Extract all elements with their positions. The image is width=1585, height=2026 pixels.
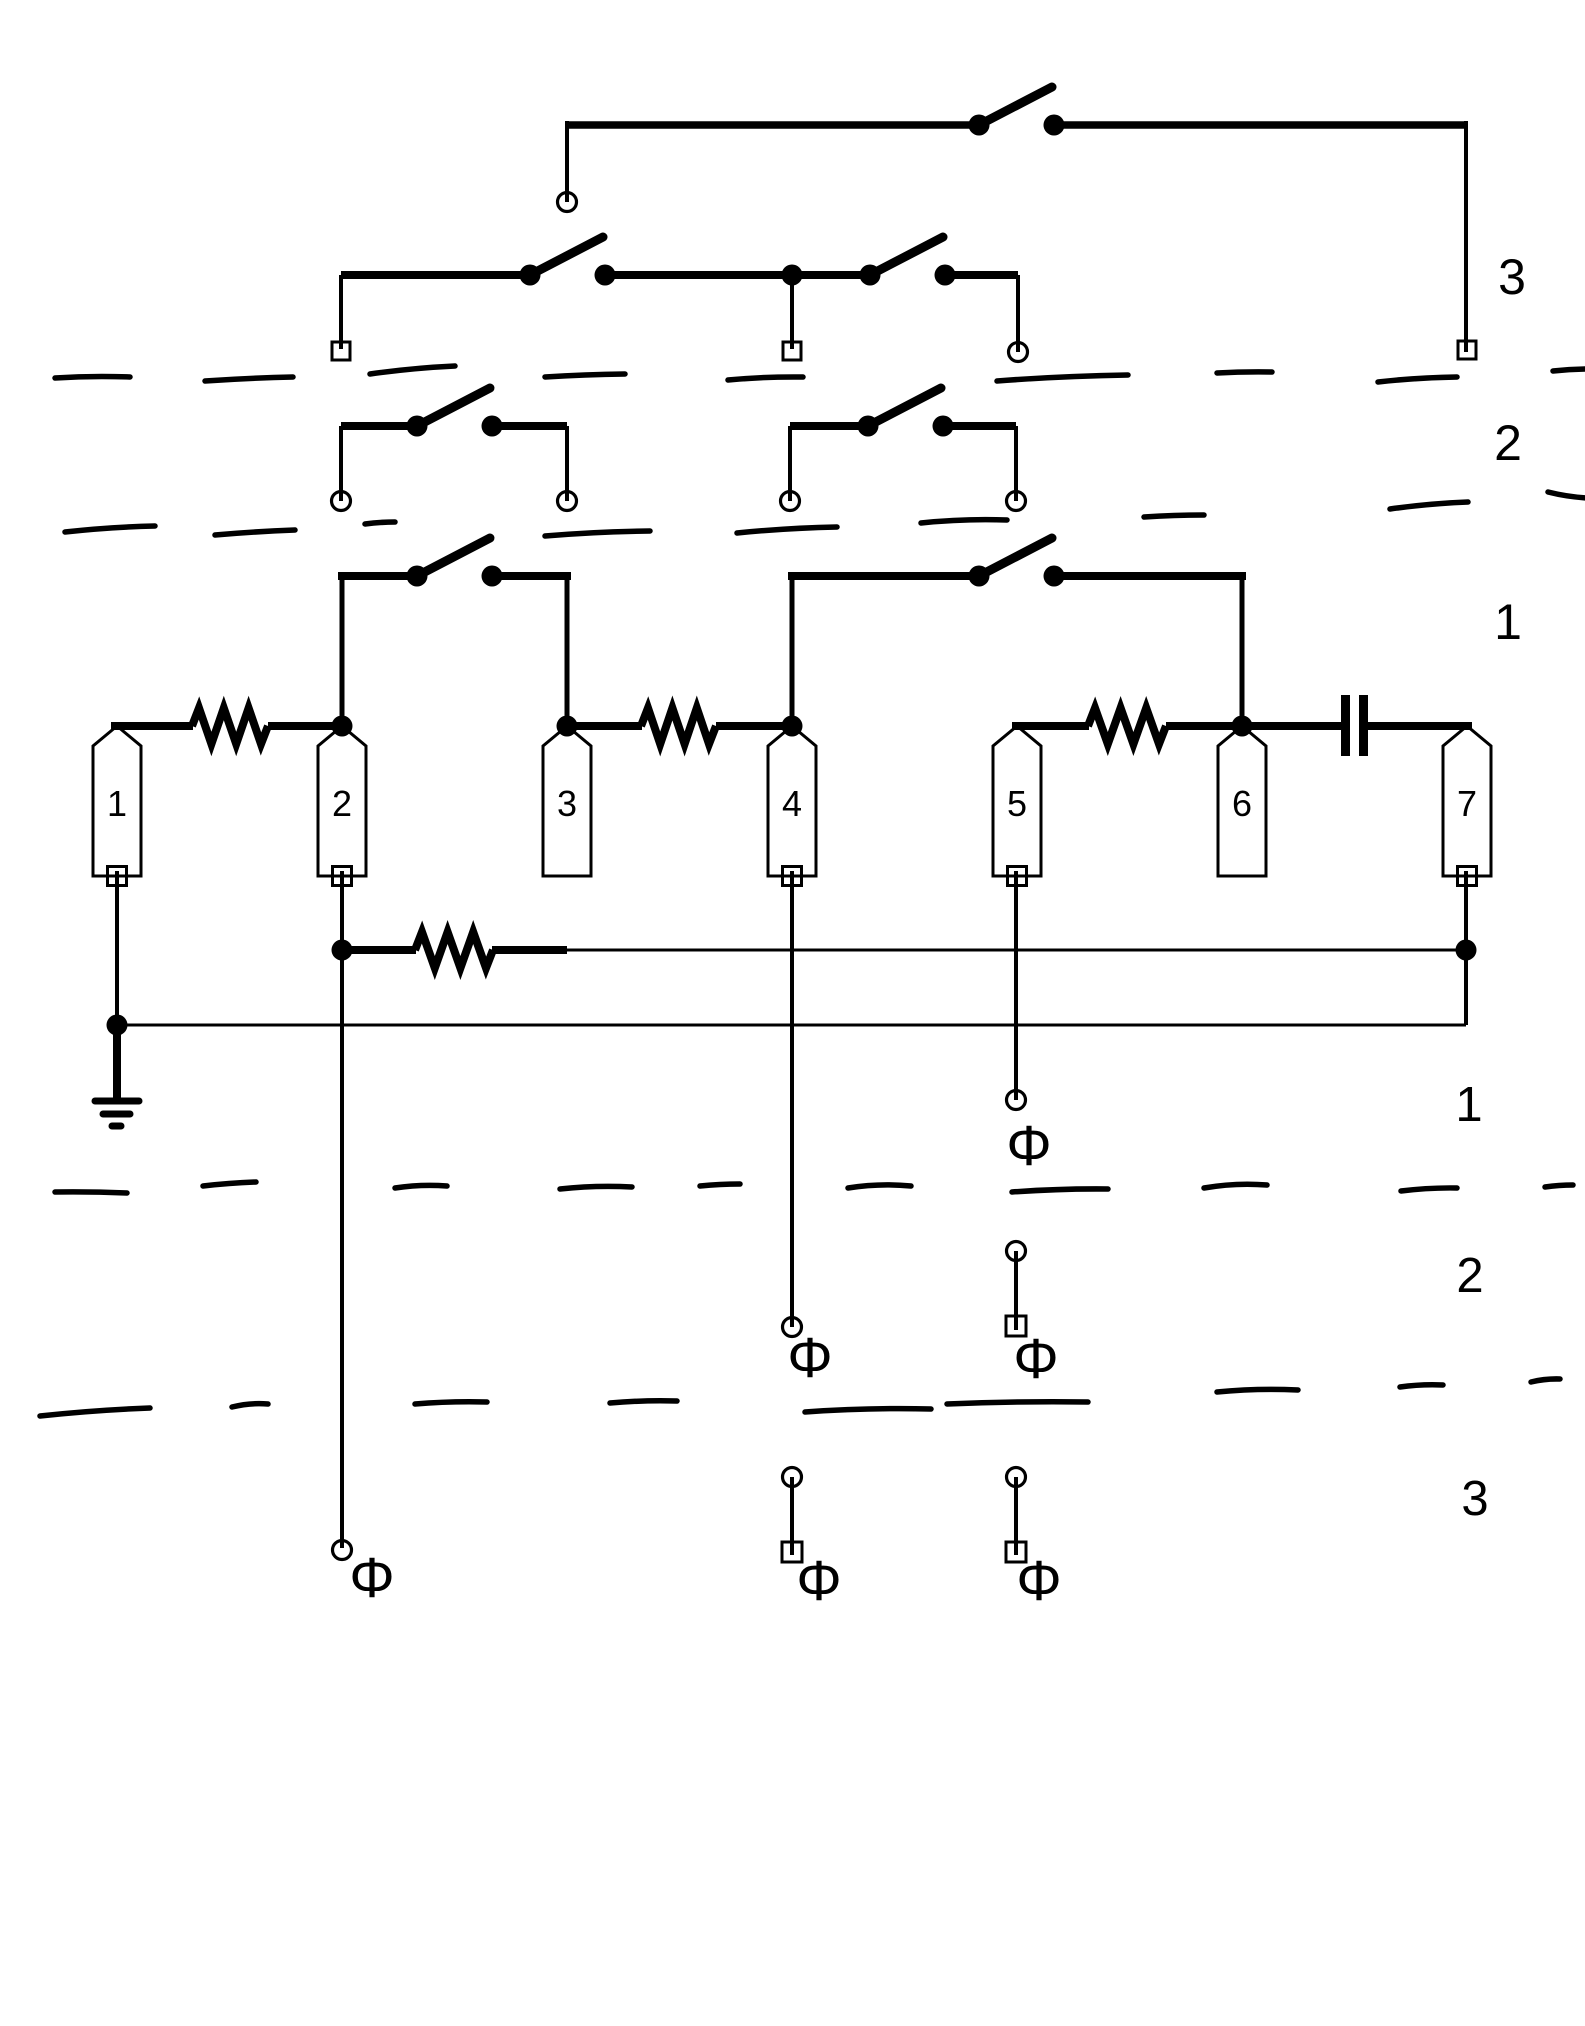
resistor R2 (between probes 3-4) bbox=[641, 708, 716, 744]
svg-text:2: 2 bbox=[1494, 415, 1522, 471]
terminal circle below probe5 bbox=[1007, 1091, 1026, 1110]
wire: row2 left switch right segment bbox=[492, 422, 567, 430]
svg-text:1: 1 bbox=[1494, 594, 1522, 650]
switch S1 pole dot bbox=[407, 566, 428, 587]
terminal circle bottom-right pair bbox=[1007, 1468, 1026, 1487]
wire: row3 bus right segment bbox=[945, 271, 1018, 279]
svg-text:1: 1 bbox=[1455, 1078, 1482, 1132]
wire: row3 right drop bbox=[1016, 275, 1020, 352]
terminal circle row2 d bbox=[1007, 492, 1026, 511]
wire: drop from top bus right end bbox=[1464, 121, 1468, 352]
probe electrode 3 body bbox=[543, 726, 591, 876]
probe electrode 7 label bbox=[1457, 783, 1477, 824]
layer label 1 (right upper) bbox=[1494, 594, 1522, 650]
terminal circle row2 c bbox=[781, 492, 800, 511]
terminal circle below probe4 bbox=[783, 1318, 802, 1337]
junction dot at probe2 top bbox=[332, 716, 353, 737]
switch S4 blade bbox=[868, 388, 941, 426]
svg-text:3: 3 bbox=[1461, 1472, 1488, 1526]
wire: probe4 bottom drop bbox=[790, 871, 794, 1327]
wire: top bus right segment bbox=[1054, 121, 1466, 129]
probe electrode 1 label bbox=[107, 783, 127, 824]
switch S7 throw dot bbox=[1044, 115, 1065, 136]
switch S7 blade bbox=[979, 87, 1052, 125]
wire: probe1 to R1 bbox=[111, 722, 193, 730]
switch S6 throw dot bbox=[935, 265, 956, 286]
ground symbol bbox=[95, 1101, 139, 1126]
layer boundary sketch line B bbox=[65, 492, 1585, 536]
wire: ground bus horizontal bbox=[117, 1024, 1466, 1027]
probe electrode 7 bottom contact square bbox=[1458, 867, 1477, 886]
switch S2 pole dot bbox=[969, 566, 990, 587]
switch S5 pole dot bbox=[520, 265, 541, 286]
layer label 2 (right upper) bbox=[1494, 415, 1522, 471]
wire: mid pair link bbox=[1014, 1251, 1018, 1330]
svg-text:7: 7 bbox=[1457, 783, 1477, 824]
svg-text:2: 2 bbox=[332, 783, 352, 824]
terminal circle row2 b bbox=[558, 492, 577, 511]
wire: row1 drop to probe 3 bbox=[565, 576, 570, 726]
probe electrode 4 label bbox=[782, 783, 802, 824]
terminal circle mid pair bbox=[1007, 1242, 1026, 1261]
terminal square row3 left bbox=[332, 342, 350, 360]
switch S5 blade bbox=[530, 237, 603, 275]
phi label below probe5 bbox=[1006, 1114, 1051, 1178]
probe electrode 6 body bbox=[1218, 726, 1266, 876]
wire: row3 bus left segment bbox=[341, 271, 530, 279]
layer label 3 (right upper) bbox=[1498, 249, 1526, 305]
wire: probe7 bottom drop bbox=[1464, 871, 1468, 1025]
wire: row3 left drop bbox=[339, 275, 343, 349]
svg-text:Φ: Φ bbox=[787, 1326, 832, 1390]
resistor R1 (between probes 1-2) bbox=[192, 708, 268, 744]
layer label 2 (right lower) bbox=[1456, 1249, 1483, 1303]
layer label 3 (right lower) bbox=[1461, 1472, 1488, 1526]
wire: row3 bus middle segment bbox=[605, 271, 870, 279]
probe electrode 4 bottom contact square bbox=[783, 867, 802, 886]
switch S3 throw dot bbox=[482, 416, 503, 437]
svg-text:Φ: Φ bbox=[796, 1549, 841, 1613]
layer boundary sketch line C bbox=[55, 1182, 1573, 1193]
switch S3 blade bbox=[417, 388, 490, 426]
wire: row1 left switch right segment bbox=[492, 572, 571, 580]
capacitor C1 (between probes 6-7) bbox=[1346, 695, 1364, 756]
switch S2 blade bbox=[979, 538, 1052, 576]
wire: probe2 bottom drop bbox=[340, 871, 344, 1548]
wire: probe1 bottom drop bbox=[115, 871, 119, 1025]
terminal square row3 center bbox=[783, 342, 801, 360]
wire: row1 right switch right segment bbox=[1054, 572, 1246, 580]
resistor R3 (between probes 5-6) bbox=[1088, 708, 1166, 744]
phi label mid pair bbox=[1013, 1327, 1058, 1391]
junction dot below probe7 bbox=[1456, 940, 1477, 961]
probe electrode 7 body bbox=[1443, 726, 1491, 876]
probe electrode 2 body bbox=[318, 726, 366, 876]
junction dot at probe6 top bbox=[1232, 716, 1253, 737]
probe electrode 3 label bbox=[557, 783, 577, 824]
wire: row2 right switch right segment bbox=[943, 422, 1016, 430]
svg-text:Φ: Φ bbox=[1006, 1114, 1051, 1178]
probe electrode 4 body bbox=[768, 726, 816, 876]
terminal circle below top bus left end bbox=[558, 193, 577, 212]
terminal circle end of probe2 line bbox=[333, 1541, 352, 1560]
probe electrode 2 bottom contact square bbox=[333, 867, 352, 886]
wire: C1 to probe7 bbox=[1368, 722, 1472, 730]
phi label below probe2 line bbox=[349, 1546, 394, 1610]
terminal square bottom-left pair bbox=[782, 1542, 802, 1562]
svg-text:4: 4 bbox=[782, 783, 802, 824]
switch S7 pole dot bbox=[969, 115, 990, 136]
svg-text:5: 5 bbox=[1007, 783, 1027, 824]
svg-text:2: 2 bbox=[1456, 1249, 1483, 1303]
wire: ground stub bbox=[113, 1025, 121, 1098]
phi label below probe4 bbox=[787, 1326, 832, 1390]
probe electrode 5 label bbox=[1007, 783, 1027, 824]
wire: row2 drop c bbox=[788, 426, 792, 501]
wire: row1 drop to probe 6 bbox=[1240, 576, 1245, 726]
switch S6 pole dot bbox=[860, 265, 881, 286]
wire: drop from top bus left end bbox=[565, 121, 569, 202]
switch S5 throw dot bbox=[595, 265, 616, 286]
wire: bottom-right pair link bbox=[1014, 1477, 1018, 1555]
switch S4 pole dot bbox=[858, 416, 879, 437]
wire: row2 left switch left segment bbox=[341, 422, 417, 430]
wire: row3 center drop bbox=[790, 275, 794, 349]
wire: bottom-left pair link bbox=[790, 1477, 794, 1555]
wire: R3 to probe6 bbox=[1166, 722, 1242, 730]
phi label bottom-left pair bbox=[796, 1549, 841, 1613]
svg-text:3: 3 bbox=[1498, 249, 1526, 305]
layer boundary sketch line A bbox=[55, 366, 1585, 382]
junction dot at probe3 top bbox=[557, 716, 578, 737]
wire: probe5 bottom drop bbox=[1014, 871, 1018, 1100]
junction dot row3 center bbox=[782, 265, 803, 286]
probe electrode 5 body bbox=[993, 726, 1041, 876]
junction dot below probe2 bbox=[332, 940, 353, 961]
switch S3 pole dot bbox=[407, 416, 428, 437]
switch S4 throw dot bbox=[933, 416, 954, 437]
layer label 1 (right lower) bbox=[1455, 1078, 1482, 1132]
terminal square bottom-right pair bbox=[1006, 1542, 1026, 1562]
junction dot at probe4 top bbox=[782, 716, 803, 737]
wire: probe6 to C1 bbox=[1242, 722, 1341, 730]
switch S1 blade bbox=[417, 538, 490, 576]
wire: probe3 to R2 bbox=[567, 722, 642, 730]
svg-text:3: 3 bbox=[557, 783, 577, 824]
probe electrode 5 bottom contact square bbox=[1008, 867, 1027, 886]
wire: row1 left switch left segment bbox=[338, 572, 417, 580]
switch S1 throw dot bbox=[482, 566, 503, 587]
wire: probe5 to R3 bbox=[1012, 722, 1089, 730]
wire: row1 drop to probe 4 bbox=[790, 576, 795, 726]
phi label bottom-right pair bbox=[1016, 1549, 1061, 1613]
probe electrode 6 label bbox=[1232, 783, 1252, 824]
probe electrode 1 body bbox=[93, 726, 141, 876]
wire: R4 to mid bbox=[492, 946, 567, 954]
svg-text:1: 1 bbox=[107, 783, 127, 824]
probe electrode 2 label bbox=[332, 783, 352, 824]
wire: probe2 node to R4 bbox=[342, 946, 416, 954]
wire: row1 right switch left segment bbox=[788, 572, 979, 580]
switch S6 blade bbox=[870, 237, 943, 275]
resistor R4 (lower) bbox=[415, 932, 493, 968]
svg-text:Φ: Φ bbox=[1016, 1549, 1061, 1613]
wire: top bus left segment bbox=[567, 121, 979, 129]
switch S2 throw dot bbox=[1044, 566, 1065, 587]
svg-text:6: 6 bbox=[1232, 783, 1252, 824]
wire: row1 drop to probe 2 bbox=[340, 576, 345, 726]
terminal circle row2 a bbox=[332, 492, 351, 511]
wire: R2 to probe4 bbox=[716, 722, 792, 730]
wire: thin line to right node bbox=[567, 949, 1466, 952]
svg-text:Φ: Φ bbox=[1013, 1327, 1058, 1391]
wire: row2 right switch left segment bbox=[790, 422, 868, 430]
junction dot ground node bbox=[107, 1015, 128, 1036]
terminal square mid pair bbox=[1006, 1316, 1026, 1336]
wire: row2 drop a bbox=[339, 426, 343, 501]
terminal circle row3 right bbox=[1009, 343, 1028, 362]
svg-text:Φ: Φ bbox=[349, 1546, 394, 1610]
wire: row2 drop b bbox=[565, 426, 569, 501]
wire: R1 to probe2 bbox=[268, 722, 342, 730]
terminal circle bottom-left pair bbox=[783, 1468, 802, 1487]
terminal square top right bbox=[1458, 341, 1476, 359]
probe electrode 1 bottom contact square bbox=[108, 867, 127, 886]
wire: row2 drop d bbox=[1014, 426, 1018, 501]
layer boundary sketch line D bbox=[40, 1379, 1560, 1416]
